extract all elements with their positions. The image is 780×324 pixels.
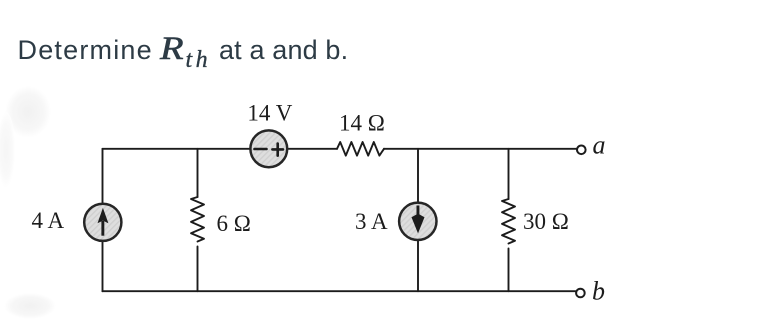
svg-text:3 A: 3 A xyxy=(355,209,388,234)
svg-text:a: a xyxy=(593,131,606,160)
svg-text:6 Ω: 6 Ω xyxy=(217,211,251,236)
svg-text:14 V: 14 V xyxy=(247,101,292,126)
svg-text:b: b xyxy=(592,277,605,306)
svg-text:4 A: 4 A xyxy=(32,208,65,233)
svg-text:14 Ω: 14 Ω xyxy=(339,111,385,136)
svg-text:30 Ω: 30 Ω xyxy=(523,209,569,234)
